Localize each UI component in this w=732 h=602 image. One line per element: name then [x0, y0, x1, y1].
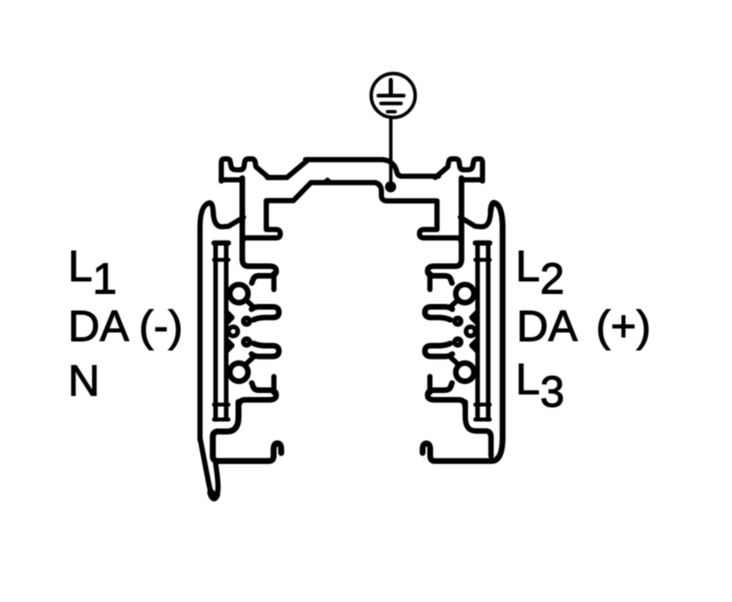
clip-C4-stub-right: [427, 377, 432, 393]
slot-right-cap: [475, 240, 490, 245]
earth symbol PE: [371, 74, 415, 118]
svg-text:L1: L1: [68, 242, 117, 304]
conductor right big rings: [456, 285, 474, 303]
notch-right-1: [472, 313, 477, 323]
clip-C1-stub-right: [427, 274, 432, 290]
mid-inner-right: [376, 183, 462, 244]
ear-right-top: [435, 159, 482, 181]
tail-left-inner: [214, 464, 218, 499]
svg-text:L3: L3: [516, 355, 565, 417]
mid-top: [306, 160, 439, 177]
slot-right-div2: [475, 403, 490, 407]
mid-inner-nick: [324, 180, 332, 183]
ear-left-bottom: [221, 177, 242, 182]
mid-inner-left: [242, 183, 311, 244]
mid-inner-ceiling: [311, 180, 376, 185]
wire earth-to-profile: [389, 118, 392, 187]
clip-C3-left: [252, 343, 279, 356]
valley-right: [460, 212, 490, 227]
link-C3-circ2-right: [451, 358, 458, 364]
slot-left-bottom: [214, 418, 229, 422]
plateau-left: [268, 160, 308, 177]
svg-text:L2: L2: [516, 242, 565, 304]
slot-right-div1: [475, 258, 490, 262]
svg-text:DA (-): DA (-): [68, 302, 183, 351]
ear-left-top: [221, 159, 268, 181]
link-circ1-C2-left: [246, 300, 253, 306]
link-circ1-C2-right: [451, 300, 458, 306]
slot-left-innerline: [224, 244, 229, 418]
claw knob tips right: [455, 318, 461, 324]
wall-right-outer: [423, 203, 503, 461]
slot-right-bottom: [475, 418, 490, 422]
svg-text:N: N: [68, 356, 100, 405]
conductor DA(-) left small ring: [229, 327, 238, 336]
clip-C4-lead-left: [239, 400, 249, 408]
slot-right-outerline: [486, 243, 491, 420]
clip-C4-right: [428, 383, 456, 400]
clip-C2-right: [425, 307, 452, 320]
tail-left-outer: [200, 438, 214, 499]
link-C3-circ2-left: [246, 358, 253, 364]
wall-left-outer: [200, 203, 213, 440]
foot-left: [213, 402, 281, 461]
slot-right-innerline: [475, 244, 480, 418]
ear-right-bottom: [462, 177, 483, 182]
junction dot: [385, 181, 396, 192]
notch-left-2: [227, 341, 232, 351]
clip-C4-stub-left: [271, 377, 276, 393]
valley-left: [213, 212, 243, 227]
slot-left-div1: [214, 258, 229, 262]
slot-left-outerline: [213, 243, 218, 420]
ear-left-vert: [242, 178, 248, 266]
ear-right-vert: [456, 178, 462, 266]
clip-C1-right: [428, 266, 456, 283]
conductor DA(+) right small ring: [466, 327, 475, 336]
svg-text:DA (+): DA (+): [517, 302, 651, 351]
clip-C2-left: [252, 307, 279, 320]
conductor circle L1/N left big rings: [230, 285, 248, 303]
clip-C1-stub-left: [271, 274, 276, 290]
clip-C4-left: [248, 383, 276, 400]
notch-right-2: [472, 341, 477, 351]
claw knob tips left: [244, 318, 250, 324]
slot-left-div2: [214, 403, 229, 407]
tail-left-tipfill: [211, 493, 217, 498]
clip-C4-lead-right: [456, 400, 466, 408]
foot-right-inner: [465, 402, 491, 456]
notch-left-1: [227, 313, 232, 323]
slot-left-cap: [214, 240, 229, 245]
clip-C1-left: [248, 266, 276, 283]
clip-C3-right: [425, 343, 452, 356]
